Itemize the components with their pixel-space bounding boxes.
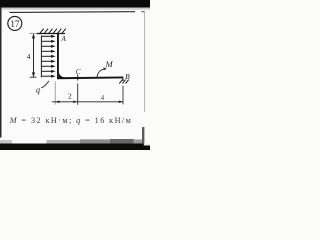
frame top-right corner tick — [141, 11, 145, 13]
gray separator line under band — [0, 8, 150, 10]
moment M arc — [97, 69, 105, 79]
dim arrow at C — [73, 101, 77, 104]
distributed load arrows q — [42, 36, 52, 76]
beam end tick at B — [122, 78, 124, 81]
support A ceiling line — [36, 33, 65, 35]
svg-text:2: 2 — [68, 91, 72, 100]
dim arrow left end — [55, 101, 59, 104]
svg-text:q: q — [36, 86, 40, 95]
scan artifact medium gray patch — [134, 140, 144, 144]
distributed load left line — [40, 35, 42, 77]
frame top border line — [9, 11, 135, 14]
bottom scan black band — [0, 144, 150, 151]
support B hatching — [119, 80, 128, 84]
column member — [57, 34, 59, 79]
dimension 4 bottom tick — [30, 76, 37, 78]
svg-text:17: 17 — [10, 19, 20, 29]
top scan black band — [0, 0, 150, 8]
dimension 4 vertical line — [33, 34, 35, 76]
svg-text:4: 4 — [101, 94, 105, 102]
problem number circle 17 — [8, 16, 22, 30]
bottom-right white notch — [144, 144, 150, 146]
dimension 4 arrow down — [32, 72, 35, 77]
moment M arrowhead — [103, 67, 106, 70]
dim arrow right end — [119, 101, 123, 104]
svg-text:M: M — [105, 59, 114, 69]
right extension line at B — [122, 86, 124, 105]
svg-text:4: 4 — [27, 52, 31, 61]
scan artifact vertical bar right — [142, 127, 144, 144]
q leader line — [41, 81, 49, 88]
svg-text:B: B — [125, 72, 130, 81]
C extension line — [77, 84, 79, 105]
support A hatching — [40, 29, 66, 34]
scan artifact dark band bottom-right — [110, 139, 134, 144]
svg-text:M = 32 кН·м; q = 16 кН/м: M = 32 кН·м; q = 16 кН/м — [9, 116, 131, 125]
left extension line — [54, 82, 56, 105]
bottom dimension line — [52, 101, 123, 103]
corner fillet — [59, 73, 65, 78]
scan artifact gray band bottom-middle — [47, 140, 81, 144]
scan artifact gray band 2 — [80, 139, 110, 143]
frame right border line — [144, 12, 146, 112]
paper background — [0, 0, 150, 150]
node C tick — [77, 75, 79, 81]
scan artifact gray patch bottom-left — [0, 140, 12, 144]
svg-text:A: A — [61, 35, 67, 43]
dimension 4 arrow up — [32, 33, 35, 38]
left page edge line — [0, 8, 2, 138]
beam member — [57, 77, 123, 80]
dimension 4 top tick — [29, 32, 35, 34]
